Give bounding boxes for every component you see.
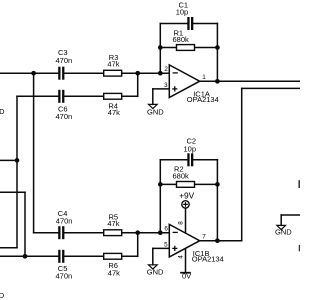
svg-text:47k: 47k bbox=[108, 108, 120, 117]
svg-text:D: D bbox=[0, 107, 5, 116]
svg-text:470n: 470n bbox=[56, 56, 73, 65]
svg-text:3: 3 bbox=[164, 82, 168, 89]
svg-text:10p: 10p bbox=[184, 144, 197, 153]
svg-text:10p: 10p bbox=[176, 8, 189, 17]
svg-text:GND: GND bbox=[147, 108, 164, 117]
svg-text:2: 2 bbox=[164, 66, 168, 73]
svg-text:0V: 0V bbox=[182, 272, 191, 281]
svg-text:OPA2134: OPA2134 bbox=[187, 95, 219, 104]
svg-text:5: 5 bbox=[164, 242, 168, 249]
svg-text:8: 8 bbox=[178, 221, 185, 225]
svg-text:7: 7 bbox=[202, 233, 206, 240]
svg-text:680k: 680k bbox=[173, 35, 190, 44]
svg-text:470n: 470n bbox=[56, 112, 73, 121]
svg-text:GND: GND bbox=[275, 227, 292, 236]
svg-text:OPA2134: OPA2134 bbox=[192, 254, 224, 263]
svg-text:GND: GND bbox=[147, 267, 164, 276]
svg-text:47k: 47k bbox=[108, 268, 120, 277]
svg-text:1: 1 bbox=[202, 74, 206, 81]
svg-text:470n: 470n bbox=[56, 217, 73, 226]
svg-text:47k: 47k bbox=[107, 60, 119, 69]
svg-text:47k: 47k bbox=[107, 219, 119, 228]
svg-text:D: D bbox=[0, 291, 5, 300]
svg-text:680k: 680k bbox=[173, 171, 190, 180]
svg-text:+9V: +9V bbox=[179, 190, 194, 200]
svg-text:470n: 470n bbox=[56, 272, 73, 281]
svg-text:6: 6 bbox=[164, 226, 168, 233]
svg-text:4: 4 bbox=[178, 255, 185, 259]
